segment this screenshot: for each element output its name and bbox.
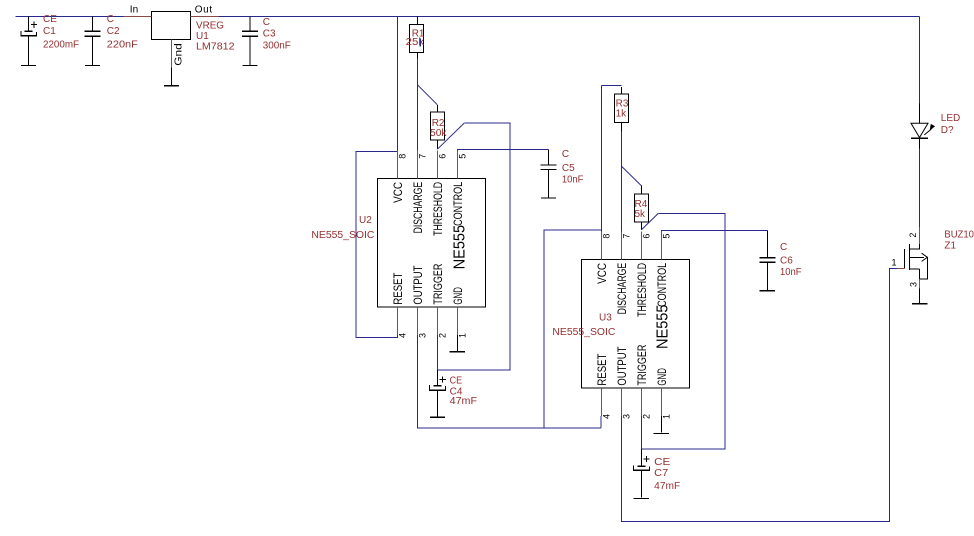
- svg-text:RESET: RESET: [597, 354, 609, 386]
- pin Out of U1: [191, 16, 219, 18]
- Z1 drain lead: [909, 244, 919, 249]
- pin 1 of U2 (GND): [456, 307, 458, 335]
- wire: blue overlap tick on k of 25k: [420, 39, 421, 47]
- svg-text:C: C: [107, 14, 114, 25]
- wire: R1 bottom to U2 pin7 (DISCHARGE net): [416, 58, 418, 150]
- svg-text:CE: CE: [450, 376, 463, 387]
- svg-text:GND: GND: [453, 287, 465, 305]
- wire: LED cathode to MOSFET drain: [919, 149, 921, 227]
- wire: LED anode column: [919, 17, 921, 104]
- ground for U1: [171, 68, 173, 85]
- svg-text:GND: GND: [657, 368, 669, 386]
- capacitor C7 (electrolytic 47mF) on U3 trigger: [633, 449, 650, 497]
- svg-text:U1: U1: [196, 31, 209, 42]
- svg-text:47mF: 47mF: [450, 396, 478, 407]
- svg-text:50k: 50k: [430, 128, 448, 139]
- svg-text:Out: Out: [195, 5, 213, 16]
- capacitor C4 (electrolytic 47mF) on U2 trigger: [429, 370, 446, 416]
- svg-text:7: 7: [621, 234, 631, 239]
- svg-text:2200mF: 2200mF: [43, 40, 79, 51]
- LED D?: [911, 104, 935, 149]
- svg-text:10nF: 10nF: [562, 174, 584, 185]
- Z1 gate line: [903, 249, 905, 268]
- svg-text:4: 4: [601, 414, 611, 419]
- svg-text:CONTROL: CONTROL: [657, 262, 669, 306]
- capacitor C3 (300nF): [242, 17, 258, 65]
- wire: U2 pin5 control to C5: [457, 149, 548, 152]
- svg-text:LM7812: LM7812: [196, 41, 235, 52]
- pin 3 (source) stub of Z1: [919, 279, 921, 288]
- svg-text:6: 6: [641, 234, 651, 239]
- Z1 channel line: [908, 244, 910, 270]
- svg-text:C5: C5: [562, 163, 575, 174]
- svg-text:2: 2: [437, 333, 447, 338]
- pin 5 of U2 (CONTROL): [456, 150, 458, 178]
- svg-text:THRESHOLD: THRESHOLD: [433, 182, 445, 236]
- svg-text:C3: C3: [263, 29, 276, 40]
- resistor R2 (50k): [430, 105, 444, 149]
- wire: VCC rail from U1 output to LED column: [219, 16, 920, 18]
- capacitor C1 (electrolytic 2200mF): [20, 17, 37, 65]
- svg-text:3: 3: [908, 282, 918, 287]
- MOSFET Z1 BUZ10: [892, 227, 928, 288]
- svg-text:47mF: 47mF: [654, 481, 680, 492]
- svg-text:TRIGGER: TRIGGER: [637, 345, 649, 386]
- svg-text:DISCHARGE: DISCHARGE: [413, 182, 425, 234]
- capacitor C2 (220nF): [85, 17, 101, 65]
- resistor R3 (1k): [614, 87, 628, 132]
- resistor R1 (25k): [410, 17, 424, 59]
- wire: diagonal from R1 net to R2 top: [417, 85, 437, 105]
- pin 3 of U2 (OUTPUT): [416, 307, 418, 335]
- svg-text:C7: C7: [654, 468, 668, 479]
- svg-text:Gnd: Gnd: [173, 43, 184, 66]
- svg-text:OUTPUT: OUTPUT: [413, 266, 425, 305]
- svg-text:1: 1: [457, 333, 467, 338]
- pin 4 of U3 (RESET): [600, 388, 602, 416]
- wire: top power rail (VCC net): [16, 16, 124, 18]
- pin 2 of U3 (TRIGGER): [640, 388, 642, 416]
- capacitor C6 (10nF): [759, 230, 775, 290]
- svg-text:2: 2: [908, 233, 918, 238]
- pin 5 of U3 (CONTROL): [660, 231, 662, 259]
- svg-text:OUTPUT: OUTPUT: [617, 347, 629, 386]
- ground for C4: [430, 417, 445, 418]
- svg-text:VCC: VCC: [597, 263, 609, 284]
- ground for C7: [634, 498, 649, 499]
- svg-text:4: 4: [397, 333, 407, 338]
- svg-text:C1: C1: [43, 26, 56, 37]
- wire: U3 threshold feedback diagonal and loop to pin2: [641, 213, 658, 230]
- svg-text:Z1: Z1: [944, 241, 956, 252]
- svg-text:VREG: VREG: [196, 21, 224, 32]
- Z1 source lead: [909, 269, 919, 279]
- ground for U2 pin1: [450, 351, 465, 352]
- wire: U3 pin5 control to C6: [661, 230, 767, 231]
- pin 1 of U3 (GND): [660, 388, 662, 416]
- svg-text:220nF: 220nF: [107, 40, 138, 51]
- svg-text:CE: CE: [654, 457, 670, 468]
- svg-text:NE555: NE555: [655, 304, 672, 349]
- svg-text:8: 8: [601, 234, 611, 239]
- pin 8 of U3 (VCC): [600, 231, 602, 259]
- capacitor C5 (10nF): [541, 150, 557, 198]
- svg-text:C: C: [263, 17, 270, 28]
- pin 8 of U2 (VCC): [396, 150, 398, 178]
- pin In of U1: [124, 16, 152, 18]
- pin 6 of U3 (THRESHOLD): [640, 231, 642, 259]
- svg-text:NE555: NE555: [451, 225, 468, 270]
- svg-text:5: 5: [661, 234, 671, 239]
- svg-text:CONTROL: CONTROL: [453, 181, 465, 225]
- svg-text:C: C: [780, 242, 787, 253]
- wire: U3 pin4 to output net: [600, 416, 602, 428]
- svg-text:RESET: RESET: [393, 273, 405, 305]
- svg-text:C: C: [562, 149, 569, 160]
- svg-text:U3: U3: [599, 313, 612, 324]
- svg-text:300nF: 300nF: [263, 41, 291, 52]
- svg-text:3: 3: [417, 333, 427, 338]
- svg-text:1: 1: [661, 414, 671, 419]
- wire: U3 pin1 GND to ground: [660, 416, 662, 432]
- svg-text:5: 5: [457, 154, 467, 159]
- voltage regulator U1 LM7812: [152, 12, 191, 40]
- wire: U2 reset wrap (pin8 corner left, down, to pin4): [356, 151, 397, 337]
- pin 2 (drain) stub of Z1: [919, 227, 921, 244]
- svg-text:10nF: 10nF: [780, 267, 802, 278]
- svg-text:U2: U2: [359, 215, 372, 226]
- wire: R3 bottom to U3 pin7: [620, 132, 622, 232]
- wire: U2 output net - pin3 down, right to U3, branch up to U3 VCC: [417, 335, 601, 428]
- svg-text:CE: CE: [43, 14, 57, 25]
- resistor R4 (5k): [634, 186, 648, 230]
- svg-text:D?: D?: [941, 125, 954, 136]
- pin 6 of U2 (THRESHOLD): [436, 150, 438, 178]
- Z1 body connection with arrow: [920, 257, 928, 279]
- svg-text:NE555_SOIC: NE555_SOIC: [311, 230, 374, 241]
- svg-text:5k: 5k: [635, 209, 647, 220]
- wire: feedback horizontal y=123 and vertical x=509.8 down to trigger: [437, 123, 509, 370]
- pin 1 (gate) stub of Z1: [897, 268, 904, 270]
- svg-text:3: 3: [621, 414, 631, 419]
- ground for C6: [760, 290, 775, 291]
- ground for Z1 source: [919, 288, 921, 303]
- ground for C5: [541, 197, 556, 198]
- IC U3 NE555 body: [582, 260, 690, 389]
- pin Gnd of U1: [171, 40, 173, 68]
- pin 4 of U2 (RESET): [396, 307, 398, 335]
- svg-text:C2: C2: [107, 26, 120, 37]
- svg-text:7: 7: [417, 154, 427, 159]
- IC U2 NE555 body: [378, 179, 486, 308]
- svg-text:2: 2: [641, 414, 651, 419]
- pin 7 of U2 (DISCHARGE): [416, 150, 418, 178]
- svg-text:C6: C6: [780, 256, 793, 267]
- ground for C3: [242, 65, 257, 66]
- wire: diagonal R3 net to R4 top: [621, 166, 641, 186]
- wire: diagonal R2 bottom to threshold feedback: [437, 123, 464, 149]
- svg-text:25k: 25k: [406, 37, 426, 48]
- wire: U2 pin1 GND to ground: [456, 335, 458, 351]
- wire: VCC rail down to U2 pin 8: [396, 17, 398, 151]
- svg-text:6: 6: [437, 154, 447, 159]
- svg-text:LED: LED: [941, 113, 960, 124]
- ground for C2: [85, 65, 100, 66]
- svg-text:1k: 1k: [616, 109, 628, 120]
- svg-text:NE555_SOIC: NE555_SOIC: [552, 327, 615, 338]
- svg-text:BUZ10: BUZ10: [944, 230, 974, 241]
- wire: U3 pin2 up to feedback: [640, 416, 642, 449]
- svg-text:TRIGGER: TRIGGER: [433, 264, 445, 305]
- pin 3 of U3 (OUTPUT): [620, 388, 622, 416]
- wire: U3 VCC/R3 net corner: [601, 85, 621, 87]
- svg-text:THRESHOLD: THRESHOLD: [637, 263, 649, 317]
- svg-text:8: 8: [397, 154, 407, 159]
- svg-text:In: In: [130, 5, 138, 16]
- pin 7 of U3 (DISCHARGE): [620, 231, 622, 259]
- wire: U3 output pin3 down to bottom rail to MOSFET gate: [621, 269, 897, 522]
- pin 2 of U2 (TRIGGER): [436, 307, 438, 335]
- svg-text:1: 1: [892, 258, 897, 268]
- svg-text:DISCHARGE: DISCHARGE: [617, 263, 629, 315]
- ground for U3 pin1: [654, 433, 669, 434]
- ground for C1: [21, 65, 36, 66]
- svg-text:VCC: VCC: [393, 182, 405, 203]
- wire: U2 pin2 trigger up to feedback junction: [436, 335, 438, 370]
